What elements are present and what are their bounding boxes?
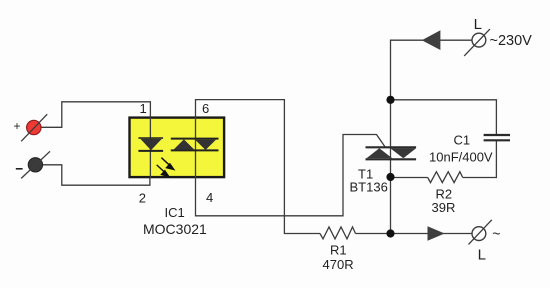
wire pin6-pin4 internal <box>195 116 197 179</box>
junction dot C <box>386 229 394 237</box>
arrow on top mains wire (points left) <box>422 30 441 50</box>
arrow on bottom mains wire (points right) <box>428 226 445 241</box>
wire junction A to C1 top <box>391 100 497 135</box>
wire pin1-pin2 internal <box>149 116 151 179</box>
LED light arrows <box>157 158 174 177</box>
svg-text:BT136: BT136 <box>350 180 388 195</box>
wire + terminal to pin 1 <box>41 102 150 128</box>
resistor R2 <box>428 172 463 183</box>
wire R2 to junction B <box>391 177 428 179</box>
svg-text:L: L <box>478 247 486 264</box>
junction dot B <box>386 173 394 181</box>
svg-text:2: 2 <box>139 191 146 206</box>
svg-text:MOC3021: MOC3021 <box>143 221 207 237</box>
svg-text:4: 4 <box>206 190 213 205</box>
svg-text:C1: C1 <box>454 133 471 148</box>
opto-triac inside IC1 <box>171 139 219 151</box>
junction dot A <box>386 96 394 104</box>
top L terminal <box>464 16 490 56</box>
wire pin 6 up over and down to R1 <box>196 100 321 234</box>
svg-text:39R: 39R <box>432 200 456 215</box>
svg-text:6: 6 <box>202 101 209 116</box>
wire - terminal to pin 2 <box>43 165 150 185</box>
capacitor C1 <box>484 134 510 136</box>
svg-text:L: L <box>474 16 482 33</box>
wire triac vertical <box>390 100 392 234</box>
wire C1 bottom to R2 <box>463 141 497 178</box>
triac T1 <box>366 147 417 159</box>
bottom L terminal <box>469 220 501 264</box>
wire pin 4 down right and up to gate <box>196 135 386 216</box>
LED inside IC1 <box>138 138 163 151</box>
svg-text:+: + <box>14 119 21 133</box>
resistor R1 <box>320 227 356 239</box>
wire top L to junction A <box>391 40 472 100</box>
svg-text:IC1: IC1 <box>165 205 185 220</box>
svg-text:~: ~ <box>492 226 500 242</box>
svg-text:470R: 470R <box>323 257 354 272</box>
optocoupler IC1 body <box>130 118 225 178</box>
terminal - (black) <box>16 151 50 178</box>
svg-text:~230V: ~230V <box>490 33 533 49</box>
terminal + (red) <box>14 114 48 141</box>
wire R1 to junction C to bottom L <box>356 233 473 235</box>
svg-text:1: 1 <box>140 101 147 116</box>
svg-text:10nF/400V: 10nF/400V <box>429 150 493 165</box>
svg-text:R1: R1 <box>330 243 347 258</box>
